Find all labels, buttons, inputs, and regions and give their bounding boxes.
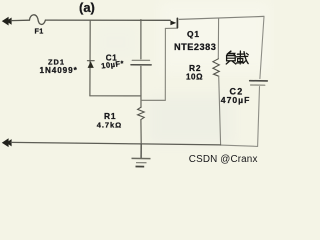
- resistor R1: [138, 107, 145, 119]
- wire: zener branch vertical: [89, 20, 91, 96]
- wire: Q1 base vertical: [164, 28, 166, 100]
- wire: Q1 base jog: [165, 27, 177, 29]
- wire: C1 branch vertical (bottom): [140, 66, 142, 107]
- svg-text:Q1: Q1: [187, 29, 200, 39]
- wire: R2 branch vertical (bottom): [219, 76, 221, 145]
- input arrow top: [2, 17, 12, 26]
- zener diode ZD1: [87, 61, 94, 68]
- wire: horizontal zener-to-C1 node: [90, 95, 141, 97]
- svg-text:CSDN @Cranx: CSDN @Cranx: [189, 154, 258, 165]
- wire: R2 branch vertical (top): [217, 18, 219, 59]
- input arrow bottom: [2, 138, 12, 147]
- wire: emitter output top-right: [179, 16, 264, 19]
- wire: bottom-right horizontal: [221, 145, 258, 146]
- 载: [237, 53, 244, 55]
- ground: [132, 144, 151, 167]
- svg-text:(a): (a): [79, 0, 95, 15]
- capacitor C2: [250, 81, 268, 86]
- transistor Q1: [170, 18, 177, 27]
- wire: right edge vertical (top): [260, 16, 264, 78]
- svg-text:1N4099*: 1N4099*: [40, 66, 78, 75]
- svg-text:4.7kΩ: 4.7kΩ: [97, 121, 122, 130]
- wire top-left: [11, 19, 30, 21]
- svg-text:10Ω: 10Ω: [186, 72, 203, 81]
- resistor R2: [213, 59, 219, 76]
- wire: C1 branch vertical (top): [140, 20, 142, 59]
- 负: [227, 51, 231, 54]
- wire top middle: [45, 19, 170, 21]
- load label 负载 (hand-drawn strokes): [226, 51, 248, 64]
- svg-text:470µF: 470µF: [221, 95, 251, 105]
- capacitor C1: [131, 60, 151, 65]
- svg-text:F1: F1: [35, 27, 44, 36]
- fuse F1: [30, 15, 46, 25]
- wire: right edge vertical (bottom): [258, 87, 260, 147]
- wire: bottom rail: [11, 142, 221, 145]
- wire: horizontal C1-to-base node: [141, 99, 165, 101]
- svg-text:NTE2383: NTE2383: [174, 42, 216, 52]
- svg-text:R1: R1: [104, 111, 116, 121]
- wire: R1 to bottom rail: [140, 120, 142, 144]
